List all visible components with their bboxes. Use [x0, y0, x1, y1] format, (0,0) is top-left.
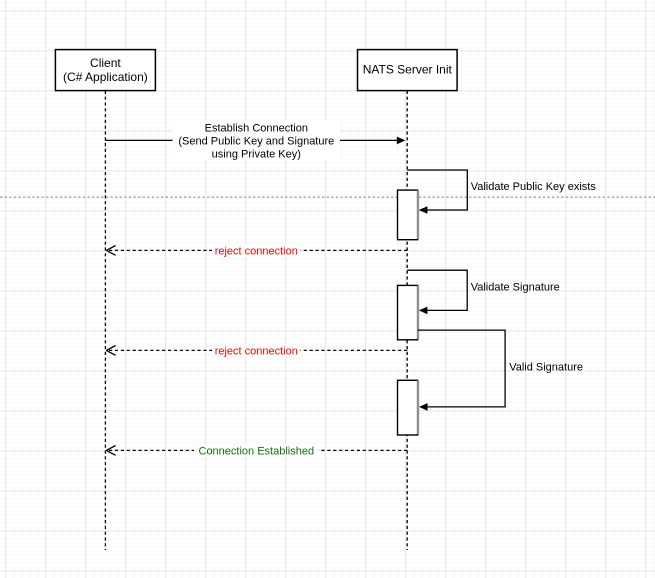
svg-text:(Send Public Key and Signature: (Send Public Key and Signature — [178, 135, 334, 147]
activation bar 1 — [398, 190, 418, 240]
return reject connection 1 (dashed Server -> Client) — [106, 244, 407, 257]
return reject connection 2 (dashed Server -> Client) — [106, 344, 407, 357]
self message Validate Public Key exists (loop 1) — [407, 170, 596, 214]
lifeline NATS Server — [406, 91, 408, 550]
activation bar 2 — [398, 285, 418, 339]
page break dashed line — [0, 196, 655, 198]
self message Valid Signature (loop 3) — [418, 330, 583, 411]
svg-text:Valid Signature: Valid Signature — [509, 362, 583, 374]
message Establish Connection (solid arrow Client -> Server) — [105, 120, 405, 161]
svg-text:(C# Application): (C# Application) — [63, 70, 148, 84]
svg-text:reject connection: reject connection — [215, 245, 298, 257]
actor Client box — [55, 50, 155, 91]
svg-text:Client: Client — [90, 56, 121, 70]
self message Validate Signature (loop 2) — [407, 270, 560, 314]
svg-text:reject connection: reject connection — [215, 345, 298, 357]
actor NATS Server Init box — [358, 50, 458, 91]
svg-text:Establish Connection: Establish Connection — [205, 122, 308, 134]
return Connection Established (dashed Server -> Client) — [106, 444, 407, 457]
svg-text:NATS Server Init: NATS Server Init — [363, 63, 453, 77]
svg-text:Validate Public Key exists: Validate Public Key exists — [471, 181, 597, 193]
svg-text:Connection Established: Connection Established — [199, 445, 315, 457]
svg-text:Validate Signature: Validate Signature — [471, 281, 560, 293]
svg-text:using Private Key): using Private Key) — [212, 148, 301, 160]
lifeline Client — [104, 91, 106, 550]
activation bar 3 — [398, 380, 418, 435]
